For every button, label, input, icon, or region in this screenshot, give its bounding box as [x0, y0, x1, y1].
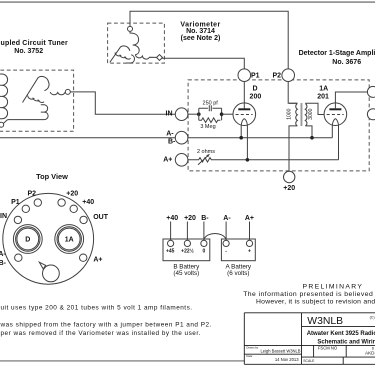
svg-text:(see Note 2): (see Note 2): [181, 35, 221, 42]
node junction: [197, 112, 201, 116]
svg-text:A-: A-: [166, 131, 174, 138]
svg-text:Top View: Top View: [36, 172, 68, 181]
terminal OUT top: [367, 86, 375, 97]
tube 1A 201 (triode V2): [324, 103, 347, 126]
lead B-: [203, 222, 205, 241]
rheostat knob: [43, 265, 60, 282]
svg-text:250 pf: 250 pf: [203, 100, 219, 106]
variometer top terminal node: [128, 26, 133, 31]
svg-text:+20: +20: [66, 190, 78, 197]
grid leak resistor R1 3 Meg: [199, 118, 221, 123]
wire P2 to transformer primary: [288, 82, 297, 104]
border frame bottom: [0, 360, 245, 361]
svg-text:AKD-39: AKD-39: [365, 351, 375, 356]
top view outline circle: [3, 193, 94, 284]
tube D 200 (triode V1): [233, 103, 256, 126]
svg-text:(45 volts): (45 volts): [173, 270, 199, 277]
svg-text:P1: P1: [251, 73, 260, 80]
svg-text:PRELIMINARY: PRELIMINARY: [303, 284, 364, 291]
interstage transformer T1: [289, 103, 297, 171]
wire IN to grid network: [188, 113, 199, 115]
coupled circuit tuner box (No. 3752): [0, 70, 74, 131]
wire 1A plate to OUT: [335, 92, 367, 109]
svg-text:1000: 1000: [287, 108, 293, 119]
terminal A+: [175, 154, 188, 167]
wire tuner bottom: [3, 120, 7, 124]
svg-text:14 Nov 2013: 14 Nov 2013: [275, 357, 299, 362]
svg-text:+45: +45: [166, 249, 175, 255]
A battery box: [221, 239, 255, 261]
svg-text:A+: A+: [163, 157, 172, 164]
title block: [244, 313, 375, 365]
notes text: [0, 305, 212, 337]
node junction: [310, 136, 314, 140]
svg-text:Leigh Bassett W3NLB: Leigh Bassett W3NLB: [260, 349, 300, 354]
svg-text:Drawn by: Drawn by: [246, 345, 258, 349]
battery diagram: [163, 222, 255, 261]
post +22.5: [184, 240, 190, 246]
terminal IN: [175, 108, 188, 121]
terminal P2: [282, 69, 295, 82]
pin P1: [22, 205, 29, 212]
svg-text:SCALE: SCALE: [303, 359, 315, 363]
grid capacitor C1 250pf: [199, 105, 222, 111]
svg-text:+: +: [248, 249, 251, 255]
svg-text:B-: B-: [0, 260, 7, 267]
terminal A- B-: [175, 131, 188, 144]
title block dividers: [244, 313, 375, 365]
tuner coil terminal node: [65, 89, 70, 94]
svg-text:B-: B-: [201, 215, 209, 222]
knob pointer: [39, 262, 45, 269]
tuner antenna coil L1: [0, 74, 8, 119]
svg-text:1A: 1A: [319, 85, 328, 92]
variometer rotor coil: [130, 31, 139, 45]
svg-text:+20: +20: [283, 185, 295, 192]
lead A-: [225, 222, 227, 241]
wire tuner to IN: [70, 92, 175, 114]
svg-text:P1: P1: [11, 199, 20, 206]
svg-text:No. 3714: No. 3714: [186, 28, 215, 35]
tuner rotor coil L2: [23, 76, 50, 102]
socket 1A: [55, 225, 84, 254]
svg-text:OUT: OUT: [93, 214, 109, 221]
tube 1A filament: [332, 119, 335, 138]
border frame top: [0, 1, 375, 3]
svg-text:P2: P2: [28, 190, 37, 197]
tuner secondary coil L3: [50, 92, 65, 95]
svg-text:200: 200: [250, 94, 262, 101]
svg-text:No. 3752: No. 3752: [14, 48, 43, 55]
post plus: [246, 240, 252, 246]
svg-text:per was removed if the Variome: per was removed if the Variometer was in…: [1, 330, 201, 337]
post minus: [223, 240, 229, 246]
svg-text:D: D: [252, 85, 257, 92]
svg-text:3000: 3000: [308, 108, 314, 119]
node junction: [239, 136, 243, 140]
post 0: [201, 240, 207, 246]
pin +40: [70, 205, 77, 212]
svg-text:W3NLB: W3NLB: [307, 316, 343, 327]
variometer right terminal node: [157, 55, 163, 61]
svg-text:was shipped from the factory w: was shipped from the factory with a jump…: [0, 321, 212, 328]
pin A+: [80, 254, 87, 261]
svg-text:A+: A+: [93, 257, 102, 264]
svg-text:(6 volts): (6 volts): [227, 270, 249, 277]
svg-text:D: D: [25, 237, 30, 244]
variometer stator coil: [110, 46, 130, 62]
svg-text:0: 0: [203, 249, 206, 255]
svg-text:No. 3676: No. 3676: [332, 59, 361, 66]
tuner bottom terminal node: [0, 122, 4, 127]
svg-text:+40: +40: [166, 215, 178, 222]
svg-text:uit uses type 200 & 201 tubes: uit uses type 200 & 201 tubes with 5 vol…: [1, 305, 193, 312]
terminal P1: [238, 69, 251, 82]
pin +20: [58, 199, 65, 206]
rheostat R2 2 ohms: [188, 158, 339, 162]
wire variometer to P1: [162, 58, 245, 69]
svg-text:A-: A-: [223, 215, 231, 222]
detector amp unit box (No. 3676): [188, 80, 369, 171]
svg-text:A+: A+: [245, 215, 254, 222]
svg-text:P2: P2: [273, 73, 282, 80]
wire to D grid: [222, 113, 234, 115]
svg-text:The information presented is b: The information presented is believed to…: [243, 291, 375, 298]
terminal OUT bottom: [367, 109, 375, 120]
title block outline: [244, 313, 375, 365]
labels: schematic: [1, 21, 375, 192]
svg-text:+40: +40: [82, 199, 94, 206]
svg-text:IN: IN: [166, 110, 173, 117]
svg-text:201: 201: [317, 94, 329, 101]
svg-text:However, it is subject to revi: However, it is subject to revision and c…: [256, 299, 375, 306]
jumper wire B- to A-: [204, 233, 226, 239]
post +45: [168, 240, 174, 246]
svg-text:+20: +20: [184, 215, 196, 222]
preliminary block: [243, 284, 375, 306]
node junction: [246, 158, 250, 162]
svg-text:Atwater Kent 3925 Radio: Atwater Kent 3925 Radio: [307, 331, 375, 337]
svg-text:FSCM NO: FSCM NO: [318, 345, 338, 350]
svg-text:IN: IN: [0, 213, 7, 220]
svg-text:(C): (C): [370, 316, 375, 320]
svg-text:Detector 1-Stage Amplifier: Detector 1-Stage Amplifier: [299, 50, 375, 57]
lead +20: [186, 222, 188, 241]
svg-text:2 ohms: 2 ohms: [197, 149, 215, 155]
socket D: [13, 225, 42, 254]
svg-text:upled Circuit Tuner: upled Circuit Tuner: [1, 40, 69, 47]
B battery box: [163, 239, 210, 261]
lead +40: [170, 222, 172, 241]
pin IN: [14, 216, 21, 223]
pin OUT: [80, 216, 87, 223]
node junction: [220, 112, 224, 116]
wire variometer top to P2: [130, 11, 288, 69]
svg-text:A-: A-: [0, 251, 6, 258]
svg-text:B-: B-: [168, 139, 176, 146]
svg-text:3 Meg: 3 Meg: [200, 124, 215, 130]
lead A+: [249, 222, 251, 241]
terminal +20: [284, 171, 295, 182]
pin A-: [15, 254, 22, 261]
svg-text:Date: Date: [246, 354, 252, 358]
pin P2: [34, 199, 41, 206]
top view diagram: [3, 193, 94, 284]
wire P1 to plate of D: [243, 82, 245, 110]
wire A- line: [0, 137, 332, 139]
variometer box (No. 3714): [108, 23, 165, 63]
svg-text:+22½: +22½: [181, 248, 194, 255]
tube D filament: [241, 119, 244, 138]
svg-text:1A: 1A: [65, 237, 74, 244]
